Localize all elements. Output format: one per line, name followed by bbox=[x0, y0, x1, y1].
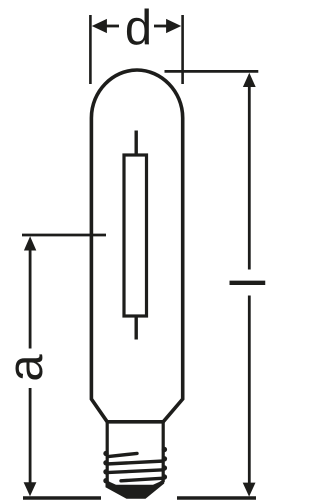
cap thread bump left 1 bbox=[103, 451, 108, 456]
svg-text:l: l bbox=[222, 277, 274, 288]
cap thread bump left 2 bbox=[103, 460, 108, 465]
arc tube bbox=[124, 155, 147, 316]
screw cap left side bbox=[107, 421, 116, 490]
label a bbox=[0, 354, 53, 382]
thread line 1 bbox=[108, 453, 137, 456]
dimension d right extension line bbox=[181, 15, 184, 84]
dimension d left arrow bbox=[92, 19, 107, 33]
cap thread bump right 3 bbox=[162, 465, 167, 470]
dimension l top extension line bbox=[165, 70, 259, 73]
dimension d right shaft bbox=[154, 25, 168, 28]
bulb outline bbox=[91, 70, 182, 422]
cap thread bump right 4 bbox=[162, 474, 167, 479]
cap bottom and contact tip bbox=[106, 480, 165, 499]
cap thread bump right 2 bbox=[162, 456, 167, 461]
thread line 4 bbox=[121, 478, 164, 481]
thread line 3 bbox=[107, 470, 165, 473]
dimension d right arrow bbox=[166, 19, 181, 33]
dimension d left extension line bbox=[89, 15, 92, 84]
dimension l bottom arrow bbox=[243, 483, 256, 497]
cap thread bump left 4 bbox=[103, 478, 108, 483]
dimension a line lower segment bbox=[29, 388, 32, 490]
dimension a bottom arrow bbox=[24, 482, 37, 496]
dimension l top arrow bbox=[243, 73, 256, 87]
lower electrode wire bbox=[134, 316, 137, 340]
dimension a extension tick bbox=[22, 234, 106, 237]
svg-text:d: d bbox=[125, 1, 152, 55]
cap thread bump left 3 bbox=[103, 469, 108, 474]
thread line 2 bbox=[107, 461, 165, 464]
dimension a top arrow bbox=[24, 236, 36, 250]
dimension l line lower segment bbox=[248, 296, 251, 491]
cap thread bump right 1 bbox=[162, 447, 167, 452]
dimension d left shaft bbox=[105, 25, 119, 28]
svg-text:a: a bbox=[0, 354, 53, 382]
dimension a bottom baseline bbox=[23, 496, 101, 499]
dimension a line upper segment bbox=[29, 248, 32, 349]
screw cap right side bbox=[155, 421, 164, 489]
label l bbox=[222, 277, 276, 288]
dimension l line upper segment bbox=[248, 85, 251, 270]
dimension l bottom baseline bbox=[177, 496, 256, 499]
upper electrode wire bbox=[134, 131, 137, 156]
